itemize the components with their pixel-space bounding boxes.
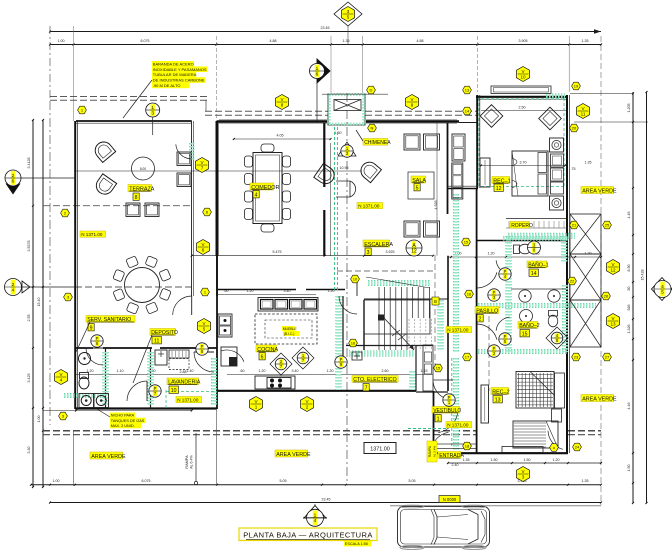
- svg-text:TUBULAR DE MADERA: TUBULAR DE MADERA: [153, 72, 197, 77]
- svg-text:NICHO PARA: NICHO PARA: [111, 414, 135, 418]
- svg-text:1.205: 1.205: [627, 104, 631, 113]
- svg-text:2: 2: [12, 282, 15, 288]
- svg-text:1: 1: [255, 405, 258, 410]
- svg-text:(B.I.C.): (B.I.C.): [284, 332, 295, 336]
- svg-text:5.475: 5.475: [273, 250, 282, 254]
- svg-text:CTO. ELECTRICO: CTO. ELECTRICO: [353, 377, 396, 383]
- svg-text:1.10: 1.10: [117, 369, 124, 373]
- svg-text:15: 15: [436, 365, 441, 370]
- svg-text:4: 4: [255, 192, 258, 198]
- svg-text:7: 7: [201, 166, 204, 171]
- svg-text:26: 26: [604, 293, 609, 298]
- svg-text:B: B: [434, 299, 437, 304]
- svg-text:1.00: 1.00: [37, 416, 41, 423]
- svg-text:4: 4: [60, 378, 63, 383]
- svg-text:24: 24: [575, 444, 580, 449]
- svg-text:5.05: 5.05: [280, 479, 287, 483]
- svg-text:1.20: 1.20: [259, 369, 266, 373]
- svg-text:8: 8: [281, 103, 284, 108]
- svg-text:4.88: 4.88: [270, 39, 277, 43]
- svg-text:23.45: 23.45: [321, 26, 330, 30]
- svg-text:RAMPA: RAMPA: [185, 455, 189, 469]
- svg-text:4.46: 4.46: [627, 212, 631, 219]
- svg-text:9: 9: [90, 325, 93, 331]
- svg-text:6: 6: [261, 354, 264, 360]
- svg-text:N 1371.00: N 1371.00: [177, 398, 199, 403]
- svg-text:3.70: 3.70: [520, 161, 527, 165]
- svg-text:2.40: 2.40: [452, 463, 459, 467]
- svg-text:4.05: 4.05: [277, 134, 284, 138]
- svg-text:3: 3: [151, 110, 154, 116]
- svg-text:16: 16: [351, 340, 356, 345]
- svg-text:3.905: 3.905: [519, 39, 528, 43]
- svg-text:4: 4: [661, 284, 664, 290]
- svg-text:1.20: 1.20: [488, 252, 495, 256]
- svg-text:SERV. SANITARIO: SERV. SANITARIO: [87, 317, 131, 323]
- svg-text:10: 10: [171, 388, 177, 394]
- svg-text:12: 12: [496, 186, 502, 192]
- svg-text:BARANDA DE ACERO: BARANDA DE ACERO: [153, 61, 194, 66]
- svg-text:16: 16: [467, 291, 472, 296]
- svg-text:4.928: 4.928: [434, 201, 438, 210]
- svg-text:2.88: 2.88: [180, 370, 187, 374]
- svg-text:18: 18: [465, 443, 470, 448]
- svg-text:1.50: 1.50: [335, 131, 342, 135]
- svg-text:1.50: 1.50: [491, 458, 498, 462]
- svg-text:9: 9: [411, 103, 414, 108]
- svg-text:2.50: 2.50: [519, 106, 526, 110]
- svg-text:N 0000: N 0000: [443, 497, 457, 502]
- svg-text:8.00: 8.00: [140, 167, 146, 171]
- svg-text:N 1371.00: N 1371.00: [81, 232, 103, 237]
- svg-text:23: 23: [574, 354, 579, 359]
- svg-text:8: 8: [135, 195, 138, 201]
- svg-text:5: 5: [416, 185, 419, 191]
- svg-text:13: 13: [610, 322, 616, 327]
- svg-text:3: 3: [347, 9, 350, 14]
- svg-text:12: 12: [411, 249, 417, 255]
- svg-text:.75: .75: [571, 167, 576, 171]
- svg-text:TANQUES DE GAS: TANQUES DE GAS: [111, 419, 145, 423]
- svg-text:INOXIDABLE Y PASAMANOS: INOXIDABLE Y PASAMANOS: [153, 67, 207, 72]
- svg-text:DE INDUSTRIAS CARBONE: DE INDUSTRIAS CARBONE: [153, 78, 205, 83]
- svg-text:6.075: 6.075: [142, 479, 151, 483]
- svg-text:10: 10: [353, 276, 358, 281]
- svg-text:11: 11: [154, 338, 159, 344]
- svg-text:1.35: 1.35: [343, 39, 350, 43]
- svg-text:4.46: 4.46: [627, 403, 631, 410]
- svg-text:3: 3: [522, 475, 525, 480]
- svg-text:17: 17: [465, 354, 470, 359]
- svg-text:21: 21: [572, 222, 577, 227]
- svg-text:15: 15: [522, 331, 528, 337]
- svg-text:.926: .926: [627, 305, 631, 312]
- svg-text:N: N: [371, 125, 374, 130]
- svg-text:2: 2: [306, 405, 309, 410]
- svg-text:.60: .60: [240, 369, 245, 373]
- svg-text:5: 5: [661, 289, 664, 295]
- svg-text:N 1371.00: N 1371.00: [447, 328, 469, 333]
- svg-text:4.88: 4.88: [417, 39, 424, 43]
- svg-text:3.40: 3.40: [292, 369, 299, 373]
- svg-text:6.075: 6.075: [141, 39, 150, 43]
- svg-text:14: 14: [531, 271, 537, 277]
- svg-text:14: 14: [465, 108, 470, 113]
- svg-text:.90 M DE ALTO: .90 M DE ALTO: [153, 83, 181, 88]
- svg-text:5: 5: [203, 327, 206, 332]
- svg-text:1.35: 1.35: [582, 39, 589, 43]
- svg-text:MUEBLE: MUEBLE: [283, 327, 298, 331]
- svg-text:2.60: 2.60: [382, 369, 389, 373]
- svg-text:AREA VERDE: AREA VERDE: [582, 396, 617, 402]
- svg-text:5.05: 5.05: [409, 479, 416, 483]
- svg-text:15: 15: [464, 239, 469, 244]
- svg-text:1.50: 1.50: [627, 465, 631, 472]
- svg-text:N 1371.00: N 1371.00: [358, 204, 380, 209]
- svg-text:11: 11: [581, 112, 586, 117]
- svg-text:7: 7: [365, 385, 368, 391]
- svg-text:1371.00: 1371.00: [370, 447, 390, 453]
- svg-text:DEPOSITO: DEPOSITO: [151, 330, 178, 336]
- svg-text:1: 1: [316, 66, 319, 72]
- svg-text:ESCALA 1:50: ESCALA 1:50: [345, 542, 368, 546]
- svg-text:1.326: 1.326: [627, 325, 631, 334]
- svg-text:1.20: 1.20: [553, 458, 560, 462]
- svg-text:15.40: 15.40: [37, 298, 41, 307]
- svg-text:AREA VERDE: AREA VERDE: [276, 452, 311, 458]
- svg-text:PLANTA BAJA — ARQUITECTUR: PLANTA BAJA — ARQUITECTURA: [243, 530, 372, 539]
- svg-text:4: 4: [314, 518, 317, 524]
- svg-text:3.925: 3.925: [386, 250, 395, 254]
- svg-text:2.55: 2.55: [27, 315, 31, 322]
- svg-text:6: 6: [12, 178, 15, 184]
- svg-text:1.20: 1.20: [327, 369, 334, 373]
- svg-text:12: 12: [610, 268, 616, 273]
- svg-text:1: 1: [437, 416, 440, 422]
- svg-text:ROPERO: ROPERO: [511, 223, 533, 229]
- svg-text:.50: .50: [627, 287, 631, 292]
- svg-text:6: 6: [316, 71, 319, 77]
- svg-text:3.4128: 3.4128: [27, 158, 31, 169]
- svg-text:1.50: 1.50: [524, 458, 531, 462]
- svg-text:1: 1: [151, 105, 154, 111]
- svg-text:23.45: 23.45: [322, 498, 331, 502]
- svg-text:1.35: 1.35: [582, 479, 589, 483]
- svg-text:8.90: 8.90: [627, 265, 631, 272]
- svg-text:AREA VERDE: AREA VERDE: [582, 188, 617, 194]
- svg-text:N 1371.00: N 1371.00: [447, 423, 469, 428]
- svg-text:AL 2.4%: AL 2.4%: [433, 446, 437, 458]
- svg-text:ENTRADA: ENTRADA: [439, 453, 464, 459]
- svg-text:19: 19: [574, 83, 579, 88]
- svg-text:3.425: 3.425: [27, 374, 31, 383]
- svg-text:13: 13: [495, 397, 501, 403]
- svg-text:RAMPA: RAMPA: [428, 445, 432, 457]
- svg-text:1.00: 1.00: [58, 39, 65, 43]
- svg-text:1.00: 1.00: [53, 479, 60, 483]
- svg-text:MAX. 2 UNID.: MAX. 2 UNID.: [111, 424, 135, 428]
- svg-text:22: 22: [570, 278, 575, 283]
- svg-text:2: 2: [479, 316, 482, 322]
- svg-text:1.15: 1.15: [421, 369, 428, 373]
- svg-text:3.30: 3.30: [27, 447, 31, 454]
- svg-text:25: 25: [605, 222, 610, 227]
- svg-text:5: 5: [347, 15, 350, 20]
- svg-text:6: 6: [202, 248, 205, 253]
- svg-text:1.35: 1.35: [585, 161, 592, 165]
- svg-text:13: 13: [465, 87, 470, 92]
- svg-text:D: D: [370, 87, 373, 92]
- svg-text:2: 2: [12, 173, 15, 179]
- svg-text:AREA VERDE: AREA VERDE: [91, 454, 126, 460]
- svg-text:20: 20: [572, 125, 577, 130]
- svg-text:LAVANDERIA: LAVANDERIA: [168, 380, 201, 386]
- svg-text:CHIMENEA: CHIMENEA: [364, 140, 391, 146]
- svg-text:1.20: 1.20: [585, 252, 592, 256]
- svg-text:4: 4: [12, 287, 15, 293]
- svg-text:3: 3: [367, 250, 370, 256]
- svg-text:10: 10: [520, 75, 526, 80]
- svg-text:3.5378: 3.5378: [27, 241, 31, 252]
- svg-text:15.428: 15.428: [641, 270, 645, 281]
- svg-text:27: 27: [605, 354, 610, 359]
- svg-text:AL 6.4%: AL 6.4%: [190, 454, 194, 468]
